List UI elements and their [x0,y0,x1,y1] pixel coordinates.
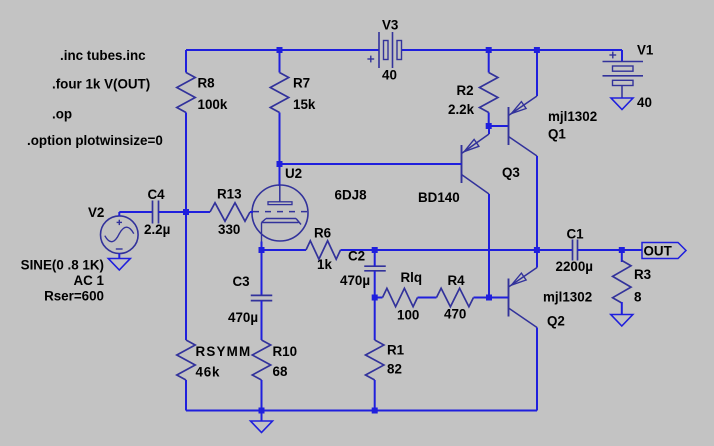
junction C2 top node [372,247,378,253]
svg-text:330: 330 [218,222,240,237]
resistor R3 [613,261,631,304]
transistor Q3 (PNP BD140) [461,145,463,183]
voltage source V3 (battery) [378,32,380,68]
svg-text:40: 40 [637,95,652,110]
wire top rail right of V3 [402,49,623,51]
junction Q1 emitter on top rail [534,47,540,53]
resistor R10 [252,340,270,380]
svg-text:2.2k: 2.2k [448,102,475,117]
svg-text:R7: R7 [293,76,310,91]
junction bottom rail / ground [259,408,265,414]
triode U2 6DJ8 [252,185,308,241]
svg-text:Rlq: Rlq [401,270,423,285]
svg-text:100k: 100k [198,97,228,112]
wire Q3 emitter leg [488,126,490,134]
port flag OUT [642,243,686,259]
anode lead inside tube [279,186,281,202]
svg-text:1k: 1k [317,257,332,272]
wire Q3 base from anode node [280,163,462,165]
svg-text:8: 8 [634,290,642,305]
svg-text:R6: R6 [314,226,331,241]
transistor Q1 (PNP mjl1302) [508,107,510,145]
svg-text:470µ: 470µ [228,310,258,325]
svg-text:R3: R3 [634,267,651,282]
junction Q1 collector / Q2 emitter [534,247,540,253]
resistor R13 [210,203,250,221]
svg-text:15k: 15k [293,97,316,112]
svg-text:R8: R8 [198,76,216,91]
svg-text:V3: V3 [382,18,398,33]
wire ground stub [261,411,263,422]
svg-text:C3: C3 [233,274,250,289]
wire C2 bottom lead [374,271,376,298]
svg-text:Rser=600: Rser=600 [44,289,104,304]
wire Q1 collector leg to OUT rail [536,156,538,250]
junction R3 / OUT port node [619,247,625,253]
svg-text:R4: R4 [448,273,466,288]
wire R8 top lead [185,50,187,73]
svg-text:R13: R13 [217,187,242,202]
wire bottom rail [186,410,537,412]
junction cathode node [259,247,265,253]
wire R8 to C4 node [185,113,187,213]
voltage source V1 (battery) [603,61,644,63]
wire R2 bottom lead [488,113,490,127]
svg-text:40: 40 [382,68,397,83]
wire top rail left segment [186,49,379,51]
resistor R1 [366,340,384,380]
wire C3 to R10 [261,301,263,340]
svg-text:.option plotwinsize=0: .option plotwinsize=0 [27,133,163,148]
svg-text:OUT: OUT [644,244,673,259]
svg-text:R10: R10 [273,344,298,359]
wire OUT rail to C1 [375,249,572,251]
wire R1 bottom lead [374,380,376,411]
svg-text:R2: R2 [457,83,474,98]
svg-text:.inc tubes.inc: .inc tubes.inc [60,48,146,63]
svg-text:R1: R1 [387,343,405,358]
svg-text:Q3: Q3 [502,165,520,180]
wire R7 top lead [279,50,281,73]
capacitor C2 [364,265,386,267]
wire V1 top lead [621,50,623,62]
junction bottom rail / R1 [372,408,378,414]
wire R4 to Q2 base node [474,297,490,299]
svg-text:.op: .op [52,107,72,122]
svg-text:.four 1k V(OUT): .four 1k V(OUT) [52,77,150,92]
transistor Q2 (PNP mjl1302) [508,279,510,317]
svg-text:2.2µ: 2.2µ [144,222,170,237]
svg-text:68: 68 [273,364,288,379]
wire R1 top lead [374,298,376,341]
capacitor C3 [251,294,273,296]
ground on bottom rail [251,421,273,433]
wire R2 top lead [488,50,490,73]
wire R3 top lead [621,250,623,262]
capacitor C4 [152,201,154,224]
wire node to R13 [186,211,210,213]
wire Q1 base [489,125,509,127]
wire cathode node to R6 [262,249,307,251]
resistor R6 [306,241,341,259]
wire C4 node down to RSYMM [185,212,187,340]
wire C2 top lead [374,250,376,266]
resistor R8 [177,73,195,113]
svg-text:C1: C1 [567,227,585,242]
wire V2 to C4 [119,211,152,213]
svg-text:470µ: 470µ [340,273,370,288]
svg-text:100: 100 [397,308,419,323]
svg-text:Q2: Q2 [547,314,565,329]
ground below R3 [611,315,633,327]
junction R2 top node [486,47,492,53]
svg-text:C4: C4 [148,187,166,202]
svg-text:SINE(0 .8 1K): SINE(0 .8 1K) [21,258,104,273]
wire C4 to node [159,211,187,213]
resistor R2 [480,73,498,113]
wire cathode node to C3 [261,250,263,295]
junction anode node (R7/tube/Q3 base) [277,161,283,167]
resistor R7 [270,73,288,113]
wire Q1 emitter leg [536,50,538,96]
wire Rlq to R4 [418,297,437,299]
svg-text:RSYMM: RSYMM [196,344,252,359]
svg-text:46k: 46k [196,365,221,380]
junction C4/R8/R13 node [183,209,189,215]
wire Q3 collector leg down to Q2 base node [488,194,490,298]
wire cathode lead [261,242,263,251]
wire R7 bottom lead to anode node [279,113,281,165]
svg-text:470: 470 [444,307,466,322]
junction C2 bottom / Rlq / R1 node [372,295,378,301]
wire node to Rlq [375,297,383,299]
resistor RSYMM [177,340,195,380]
junction R7 top node [277,47,283,53]
wire RSYMM bottom lead [185,380,187,411]
junction Q2 base node [486,295,492,301]
wire Q2 emitter leg [536,250,538,268]
svg-text:mjl1302: mjl1302 [548,109,597,124]
wire V2 bottom stub [118,253,120,258]
svg-text:C2: C2 [348,249,365,264]
svg-text:V1: V1 [637,43,654,58]
resistor R4 [437,288,474,306]
ground below V2 [108,259,130,271]
svg-text:mjl1302: mjl1302 [543,290,592,305]
svg-text:82: 82 [387,362,402,377]
wire R13 to grid [250,211,253,213]
wire R6 to C2 node [341,249,375,251]
svg-text:BD140: BD140 [418,190,460,205]
voltage source V2 (sine) [101,216,139,254]
wire Q2 base [489,297,509,299]
svg-text:V2: V2 [88,205,104,220]
wire R3 bottom lead [621,302,623,315]
capacitor C1 [572,240,574,261]
svg-text:AC 1: AC 1 [73,273,104,288]
svg-text:Q1: Q1 [548,127,566,142]
junction R2 bottom / Q3 emitter / Q1 base [486,123,492,129]
wire Q2 collector leg [536,328,538,411]
ground below V1 [611,98,633,110]
wire R10 bottom lead [261,380,263,411]
svg-text:6DJ8: 6DJ8 [335,188,368,203]
svg-text:2200µ: 2200µ [556,259,594,274]
wire anode lead [279,164,281,186]
wire C1 to OUT port [578,249,643,251]
resistor Rlq [383,288,418,306]
svg-text:U2: U2 [285,166,302,181]
